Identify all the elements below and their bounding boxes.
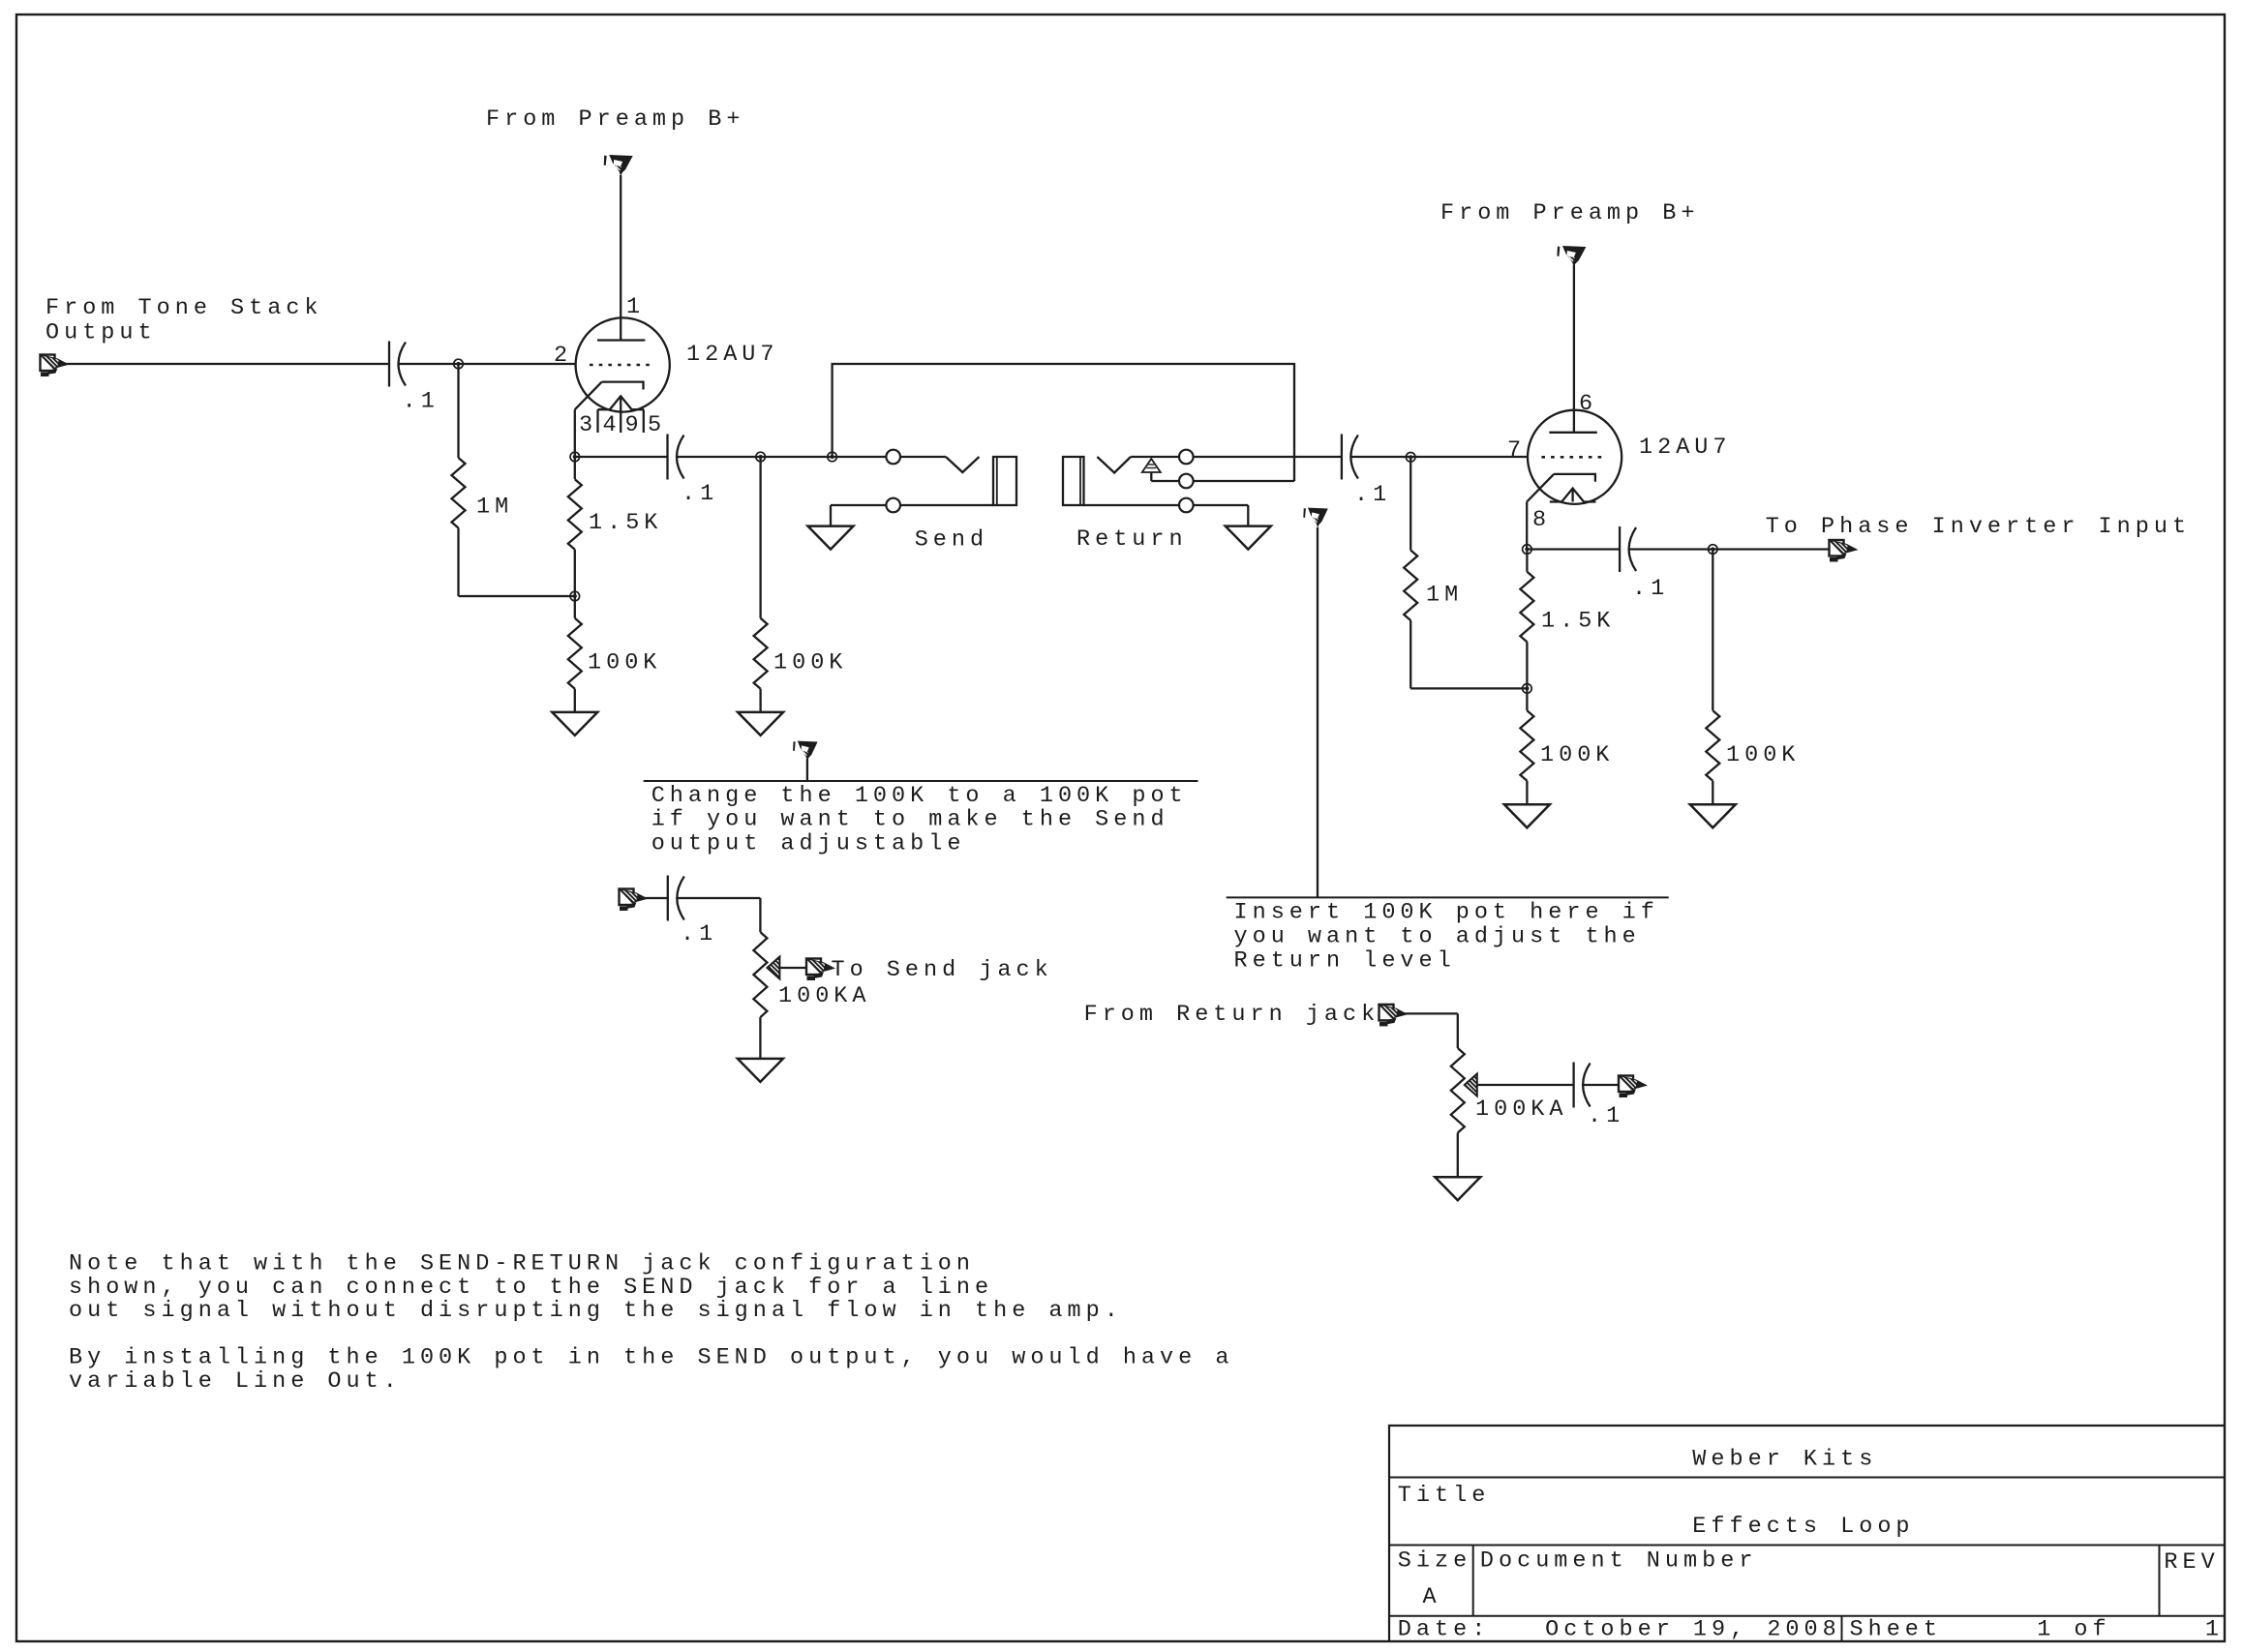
svg-text:4: 4 [603,412,621,438]
svg-text:Size: Size [1398,1548,1471,1575]
svg-text:Output: Output [45,320,157,346]
node junction cathode [570,452,580,462]
ground (R4) [738,712,783,736]
capacitor CR .1 [1341,435,1343,480]
resistor R4 100K [754,618,768,689]
triode U1A 12AU7 [575,317,670,433]
svg-text:100K: 100K [1726,742,1800,768]
send jack tip contact wire [900,456,946,458]
node junction bypass tap [828,452,837,462]
node junction cathode U1B [1523,545,1532,555]
svg-text:October 19, 2008: October 19, 2008 [1545,1617,1841,1643]
resistor R5 1M [1404,551,1417,621]
wire arrow to C4 [639,897,668,899]
svg-text:Return level: Return level [1234,947,1456,974]
wire R3 to ground [574,689,576,712]
svg-text:out signal without disrupting: out signal without disrupting the signal… [69,1298,1123,1324]
svg-text:Insert 100K pot here if: Insert 100K pot here if [1234,900,1659,926]
input arrow (pot1 from C2 node) [620,889,648,912]
wire cathode node to C2 [575,456,668,458]
wire R7 to ground [1526,781,1528,805]
wire R8 to ground [1712,781,1713,805]
send jack tip terminal [886,450,900,465]
svg-text:.1: .1 [682,481,718,507]
svg-text:From Preamp B+: From Preamp B+ [486,106,744,133]
svg-text:12AU7: 12AU7 [686,342,779,368]
wire arrow to pot2 [1397,1012,1458,1014]
wire down to R8 [1712,550,1713,711]
svg-text:6: 6 [1579,391,1597,417]
wire node to R7 [1526,688,1528,710]
svg-text:Return: Return [1076,526,1188,553]
svg-text:From Preamp B+: From Preamp B+ [1440,200,1699,226]
pin bar 9 [643,409,645,433]
wire cathode node down [574,457,576,479]
return jack sleeve terminal [1179,498,1194,513]
svg-text:100K: 100K [588,649,661,676]
potentiometer P1 100KA body [753,932,767,1017]
return jack ring wires [1151,480,1179,482]
capacitor C3 .1 [1619,526,1621,572]
potentiometer P2 100KA body [1451,1048,1465,1133]
send jack switch contact V [946,457,979,472]
svg-text:1.5K: 1.5K [1541,609,1615,635]
capacitor C1 .1 [388,342,390,387]
svg-text:12AU7: 12AU7 [1639,435,1732,461]
node junction at grid / R1 [454,359,464,369]
node junction R4 tap [756,452,766,462]
title block rev divider [2159,1546,2161,1616]
svg-text:Send: Send [915,527,988,554]
svg-text:variable Line Out.: variable Line Out. [69,1368,402,1395]
wire down to R4 [759,457,761,618]
wire input to C1 [60,363,389,365]
svg-text:1 of: 1 of [2037,1617,2110,1643]
node junction grid / R5 [1406,453,1415,463]
resistor R1 1M [452,458,466,528]
note pointer line (Change note) [806,759,808,781]
svg-text:100KA: 100KA [778,983,871,1009]
svg-text:8: 8 [1532,507,1551,533]
capacitor C4 .1 [667,876,669,921]
input arrow (From Return jack) [1379,1005,1408,1027]
pin bar 3 [596,409,598,433]
return jack ring terminal [1179,474,1194,489]
wire C5 to arrow [1583,1084,1619,1086]
resistor R7 100K [1520,710,1533,781]
resistor R6 1.5K [1520,572,1533,643]
svg-text:1M: 1M [1426,583,1463,609]
node junction R5/R6/R7 [1523,684,1532,694]
svg-text:1M: 1M [476,495,513,521]
pot2 wiper [1465,1074,1477,1096]
wire C3 to output [1629,548,1829,550]
svg-text:Title: Title [1398,1483,1491,1509]
ground (R3) [552,712,597,736]
svg-text:you want to adjust the: you want to adjust the [1234,924,1641,950]
return jack body [1063,457,1084,505]
svg-text:By installing the 100K pot in: By installing the 100K pot in the SEND o… [69,1345,1233,1371]
svg-text:.1: .1 [403,389,440,415]
svg-text:100KA: 100KA [1475,1096,1568,1123]
return jack ring net marker [1142,459,1161,472]
svg-text:Effects Loop: Effects Loop [1692,1514,1914,1540]
wire cathode node to C3 [1527,548,1620,550]
svg-text:To Phase Inverter Input: To Phase Inverter Input [1766,514,2191,540]
return jack switch contact V [1097,457,1131,473]
ground (pot1) [738,1059,783,1082]
svg-text:3: 3 [579,412,597,438]
wire R6 to node [1526,642,1528,688]
triode U1B 12AU7 [1527,410,1622,504]
node junction R8 tap [1709,545,1718,555]
wire B+ to plate pin 6 [1573,265,1575,433]
svg-text:shown, you can connect to the: shown, you can connect to the SEND jack … [69,1275,993,1301]
output arrow (To Send jack) [806,959,834,981]
wire pot1 to ground [759,1017,761,1059]
wire C1 to grid [399,363,576,365]
svg-text:output adjustable: output adjustable [652,830,966,856]
resistor R2 1.5K [568,479,582,550]
svg-text:1.5K: 1.5K [589,510,662,536]
pot1 wiper [767,957,779,979]
capacitor C2 .1 [666,435,668,480]
note marker arrow (Change note) [793,741,818,762]
svg-text:5: 5 [648,412,666,438]
output arrow (To Phase Inverter Input) [1830,540,1858,562]
svg-text:.1: .1 [1588,1103,1624,1129]
wire R5 bottom [1409,620,1411,688]
title block size divider [1472,1546,1474,1616]
title block row line 2 [1389,1545,2225,1547]
title block row line 1 [1389,1477,2225,1479]
wire cathode pin8 to node [1526,502,1528,550]
svg-text:7: 7 [1507,437,1526,464]
wire cathode node down (stage2) [1526,550,1528,572]
wire R2 to node [574,550,576,596]
return jack tip terminal [1179,450,1194,465]
svg-text:.1: .1 [1632,576,1669,602]
resistor R8 100K [1706,710,1719,781]
wire R1 bottom [457,528,459,597]
wire C2 to send jack [677,456,886,458]
wire cathode pin3 to node [574,409,576,457]
svg-text:1: 1 [2205,1617,2224,1643]
wire pot2 to ground [1457,1133,1459,1178]
send jack body [993,457,1016,505]
note underline (Change note) [644,780,1198,782]
svg-text:9: 9 [625,412,644,438]
wire CR to grid U1B [1350,456,1528,458]
svg-text:Weber Kits: Weber Kits [1692,1447,1877,1473]
send jack sleeve terminal [886,498,900,513]
power symbol B+ (stage 2, From Preamp B+) [1557,246,1586,267]
svg-text:Note that with the SEND-RETURN: Note that with the SEND-RETURN jack conf… [69,1251,975,1277]
ground (R7) [1504,804,1550,827]
ground (pot2) [1435,1177,1480,1200]
wire wiper to C5 [1477,1084,1574,1086]
ground (return jack) [1226,526,1271,550]
wire R4 to ground [759,689,761,712]
return jack sleeve wires [1084,504,1180,506]
wire B+ to plate pin 1 [620,175,621,341]
svg-text:100K: 100K [1540,742,1614,768]
svg-text:100K: 100K [773,649,847,676]
resistor R3 100K [568,618,582,689]
node junction R1/R2/R3 [570,591,580,601]
output arrow (pot2 out) [1619,1076,1647,1098]
svg-text:.1: .1 [1354,482,1391,508]
send jack sleeve wires [831,504,886,506]
svg-text:To Send jack: To Send jack [832,957,1053,983]
wire down to R1 [457,364,459,458]
wire wiper to arrow [779,967,806,969]
svg-text:Document Number: Document Number [1480,1548,1758,1575]
wire bypass loop [833,364,1294,481]
ground (R8) [1690,804,1736,827]
capacitor C5 .1 [1572,1063,1574,1108]
svg-text:Sheet: Sheet [1850,1617,1943,1643]
title block outline [1389,1426,2225,1641]
svg-text:.1: .1 [681,921,717,947]
wire return tip to CR [1194,456,1342,458]
svg-text:A: A [1423,1584,1441,1610]
svg-text:From Return jack: From Return jack [1084,1002,1380,1028]
title block sheet divider [1841,1616,1843,1641]
svg-text:Date:: Date: [1398,1617,1491,1643]
wire C4 to pot1 [677,897,760,899]
svg-text:Change the 100K to a 100K pot: Change the 100K to a 100K pot [652,783,1188,809]
return jack tip wire [1131,456,1179,458]
wire node to R3 [574,596,576,618]
input arrow (From Tone Stack Output) [41,355,69,377]
svg-text:1: 1 [626,294,645,320]
svg-text:if you want to make the Send: if you want to make the Send [652,807,1169,833]
svg-text:From Tone Stack: From Tone Stack [45,295,323,321]
wire down to R5 [1409,457,1411,550]
note pointer line (Insert note) [1317,527,1319,897]
svg-text:REV: REV [2164,1549,2219,1576]
note marker arrow (Insert note) [1303,508,1328,528]
power symbol B+ (stage 1, From Preamp B+) [604,155,633,176]
title block row line 3 [1389,1615,2225,1617]
note underline (Insert note) [1227,896,1669,898]
ground (send jack) [808,526,854,550]
